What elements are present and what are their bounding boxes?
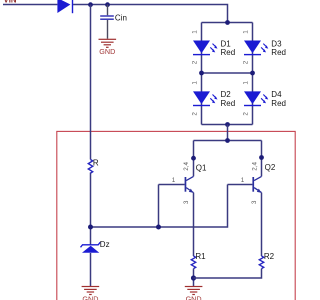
- svg-text:GND: GND: [82, 294, 98, 300]
- wire LED feed down to collector rail: [227, 125, 229, 141]
- svg-text:2: 2: [192, 60, 199, 64]
- svg-text:D1: D1: [221, 39, 232, 48]
- svg-text:1: 1: [243, 81, 250, 85]
- resistor R: [88, 158, 99, 173]
- ground GND (under R1): [185, 286, 203, 300]
- LED D2: [192, 81, 235, 116]
- wire VIN horizontal top: [3, 5, 228, 23]
- svg-text:2,4: 2,4: [183, 162, 190, 171]
- resistor R2: [259, 252, 274, 269]
- wire Q2 emitter to R2: [261, 193, 263, 256]
- svg-text:GND: GND: [186, 294, 202, 300]
- svg-text:Red: Red: [221, 99, 236, 108]
- LED network buses: [202, 23, 253, 125]
- wire R1 to ground node: [193, 269, 195, 286]
- svg-text:R2: R2: [264, 252, 275, 261]
- node mid bus right: [250, 71, 255, 76]
- svg-text:R1: R1: [195, 252, 206, 261]
- svg-text:2,4: 2,4: [252, 162, 259, 171]
- diode D1 series (input diode): [57, 0, 73, 13]
- wire Q1 emitter to R1: [193, 193, 195, 256]
- wire collector risers: [194, 141, 262, 177]
- LED D3: [243, 30, 286, 65]
- svg-text:Dz: Dz: [100, 240, 110, 249]
- svg-text:Red: Red: [271, 99, 286, 108]
- svg-text:1: 1: [192, 81, 199, 85]
- wire collector rail: [194, 140, 262, 142]
- svg-text:1: 1: [241, 177, 245, 184]
- wire R2 bottom rail to R1 node: [194, 269, 262, 278]
- node collector rail center: [225, 138, 230, 143]
- node mid bus left: [199, 71, 204, 76]
- svg-text:1: 1: [172, 177, 176, 184]
- svg-text:1: 1: [243, 30, 250, 34]
- svg-text:3: 3: [251, 200, 258, 204]
- zener diode Dz: [81, 240, 110, 253]
- node R1 bottom: [191, 275, 196, 280]
- svg-text:2: 2: [243, 60, 250, 64]
- wire base rail: [91, 185, 228, 228]
- svg-text:GND: GND: [99, 47, 115, 56]
- node base rail left: [88, 225, 93, 230]
- svg-text:Red: Red: [221, 48, 236, 57]
- LED D4: [243, 81, 286, 116]
- node bottom bus: [225, 122, 230, 127]
- node top bus: [225, 20, 230, 25]
- svg-text:D4: D4: [271, 90, 282, 99]
- red highlight box: [57, 131, 295, 300]
- wire vertical left rail: [90, 5, 92, 287]
- transistor Q1: [159, 162, 208, 205]
- node Q2 collector pin: [259, 155, 264, 160]
- node Q1 collector pin: [191, 156, 196, 161]
- LED D1: [192, 30, 235, 65]
- svg-text:R: R: [93, 158, 99, 167]
- node junction at x=107: [105, 2, 110, 7]
- svg-text:Q1: Q1: [196, 163, 207, 172]
- svg-text:D3: D3: [271, 39, 282, 48]
- svg-text:D2: D2: [221, 90, 232, 99]
- svg-text:3: 3: [183, 200, 190, 204]
- svg-text:2: 2: [192, 112, 199, 116]
- ground GND (under Dz): [82, 286, 100, 300]
- transistor Q2: [228, 162, 276, 205]
- svg-text:Red: Red: [271, 48, 286, 57]
- svg-text:2: 2: [243, 112, 250, 116]
- svg-text:Cin: Cin: [115, 14, 127, 23]
- resistor R1: [191, 252, 206, 269]
- ground GND (under Cin): [99, 39, 117, 57]
- svg-text:Q2: Q2: [265, 163, 276, 172]
- svg-text:VIN: VIN: [4, 0, 17, 4]
- svg-text:1: 1: [192, 30, 199, 34]
- capacitor Cin: [100, 5, 127, 39]
- node junction at x=90: [88, 2, 93, 7]
- node Q1 base riser: [156, 225, 161, 230]
